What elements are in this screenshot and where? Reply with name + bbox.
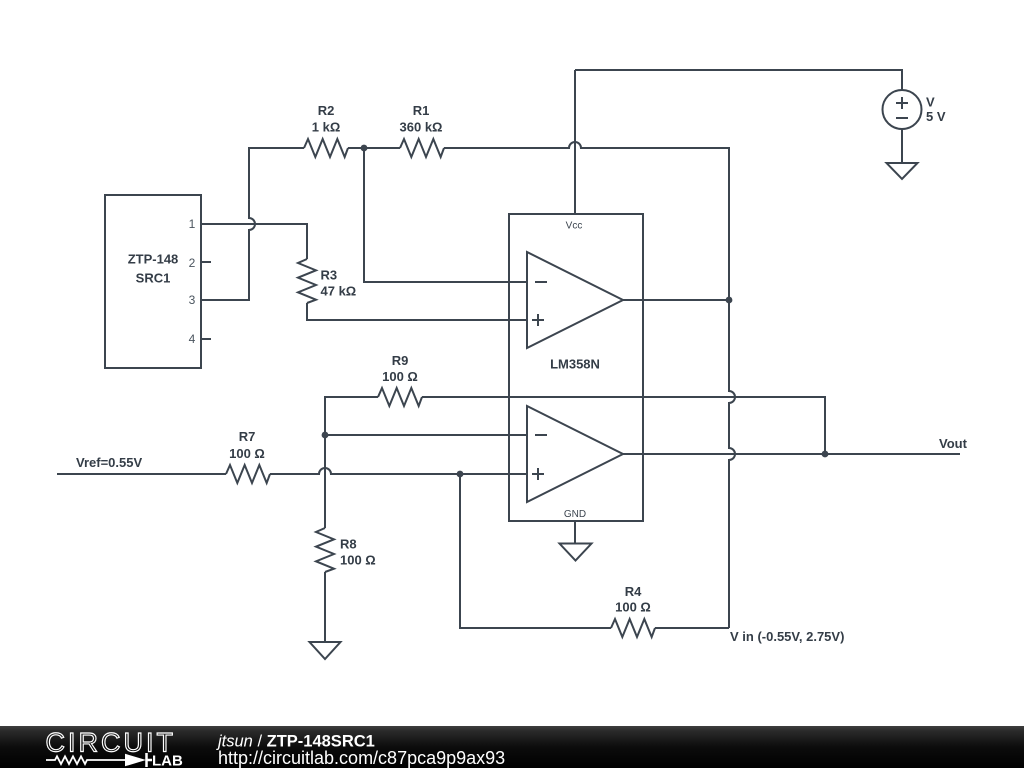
logo diode symbol [125, 754, 146, 767]
svg-text:R8: R8 [340, 537, 357, 552]
resistor R2 zigzag [304, 139, 348, 157]
junction op-amp 1 output [726, 297, 733, 304]
logo diode bar [147, 753, 153, 767]
svg-text:5 V: 5 V [926, 109, 946, 124]
wire R7 right lead to op-amp 2 non-inverting input with hop at x=325 [270, 468, 527, 474]
op-amp U1A inverting input symbol [535, 281, 547, 283]
svg-text:Vout: Vout [939, 436, 968, 451]
resistor R1 zigzag [400, 139, 444, 157]
svg-text:100 Ω: 100 Ω [340, 553, 376, 568]
voltage source V circle [883, 90, 922, 129]
wire R4 right lead to right bus bottom corner [655, 627, 729, 629]
ground under LM358N [560, 544, 592, 561]
wire op-amp 1 output to right bus [623, 299, 729, 301]
wire V source negative to ground [901, 128, 903, 163]
wire ZTP pin 1 to R3 top [201, 224, 307, 259]
svg-text:ZTP-148: ZTP-148 [128, 252, 179, 267]
svg-text:R7: R7 [239, 429, 256, 444]
IC box LM358N [509, 214, 643, 521]
junction Vout [822, 451, 829, 458]
svg-text:100 Ω: 100 Ω [382, 369, 418, 384]
resistor R7 zigzag [226, 465, 270, 483]
svg-text:R9: R9 [392, 353, 409, 368]
logo resistor squiggle [46, 756, 125, 764]
ground under R8 [310, 642, 341, 659]
svg-text:2: 2 [189, 256, 196, 270]
svg-text:SRC1: SRC1 [136, 271, 171, 286]
junction node B (R9/R8/inverting) [322, 432, 329, 439]
wire R9 right lead to Vout bus corner [422, 397, 825, 454]
wire Vcc vertical drop to op-amp supply pin [574, 70, 576, 214]
resistor R8 zigzag [316, 528, 334, 572]
svg-text:http://circuitlab.com/c87pca9p: http://circuitlab.com/c87pca9p9ax93 [218, 748, 505, 768]
junction node C (R7/non-inverting/R4) [457, 471, 464, 478]
wire R2 right lead through node A to R1 left lead [348, 147, 400, 149]
resistor R4 zigzag [611, 619, 655, 637]
svg-text:3: 3 [189, 293, 196, 307]
wire R9 left lead down through node B to R8 top [325, 397, 378, 528]
footer bar [0, 726, 1024, 768]
IC box ZTP-148 SRC1 [105, 195, 201, 368]
svg-text:360 kΩ: 360 kΩ [400, 120, 443, 135]
wire node B to op-amp 2 inverting input [325, 434, 527, 436]
resistor R9 zigzag [378, 388, 422, 406]
svg-text:47 kΩ: 47 kΩ [321, 284, 357, 299]
op-amp U1B inverting input symbol [535, 434, 547, 436]
resistor R3 zigzag [298, 259, 316, 303]
voltage source plus symbol [896, 97, 908, 109]
op-amp U1A triangle [527, 252, 623, 348]
wire R1 right lead to right vertical bus with hop at x=575, down to R4 row [444, 142, 735, 628]
wire top rail from Vcc drop to V source [575, 70, 902, 90]
svg-text:R2: R2 [318, 103, 335, 118]
wire R3 bottom to op-amp 1 non-inverting input [307, 303, 527, 320]
ground under V source [887, 163, 918, 179]
svg-text:V: V [926, 95, 935, 110]
voltage source minus symbol [896, 117, 908, 119]
wire R2 left lead down to ZTP pin 3 with hop at y=224 [201, 148, 304, 300]
svg-text:1 kΩ: 1 kΩ [312, 120, 341, 135]
svg-text:100 Ω: 100 Ω [615, 600, 651, 615]
wire R8 bottom to ground [324, 572, 326, 642]
wire LM358N GND pin to ground [574, 521, 576, 543]
wire node A down to op-amp 1 inverting input [364, 148, 527, 282]
op-amp U1B non-inverting input symbol [532, 468, 544, 480]
wire op-amp 2 output to Vout [623, 453, 960, 455]
svg-text:R1: R1 [413, 103, 430, 118]
svg-text:R3: R3 [321, 268, 338, 283]
wire node C down to R4 left lead [460, 474, 611, 628]
svg-text:Vref=0.55V: Vref=0.55V [76, 455, 142, 470]
svg-text:R4: R4 [625, 584, 642, 599]
svg-text:GND: GND [564, 509, 586, 520]
svg-text:1: 1 [189, 217, 196, 231]
svg-text:4: 4 [189, 332, 196, 346]
svg-text:LAB: LAB [152, 753, 183, 768]
pin 4 stub [201, 338, 211, 340]
wire Vref input to R7 [57, 473, 226, 475]
svg-text:100 Ω: 100 Ω [229, 446, 265, 461]
svg-text:Vcc: Vcc [566, 221, 583, 232]
svg-text:V in (-0.55V, 2.75V): V in (-0.55V, 2.75V) [730, 629, 844, 644]
svg-text:LM358N: LM358N [550, 357, 600, 372]
op-amp U1A non-inverting input symbol [532, 314, 544, 326]
op-amp U1B triangle [527, 406, 623, 502]
junction node A (R2/R1/feedback) [361, 145, 368, 152]
pin 2 stub [201, 261, 211, 263]
